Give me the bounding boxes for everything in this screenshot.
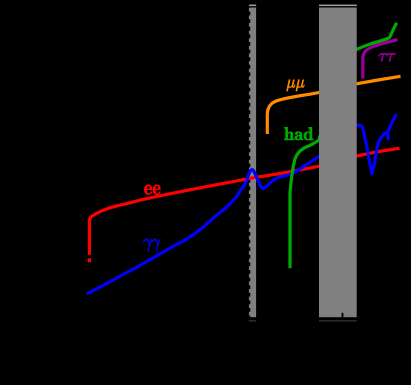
- top frame line (black, over bands): [0, 6, 411, 8]
- narrow gray band (Z threshold): [249, 5, 256, 322]
- band top sliver highlight (narrow band): [249, 5, 256, 7]
- label mu-mu: [287, 80, 305, 92]
- blue notch spur near right resonance: [386, 132, 390, 140]
- axis tick on wide band bottom: [342, 313, 344, 318]
- curve had (green): [290, 23, 397, 268]
- curve ee (red): [89, 148, 399, 262]
- bottom frame line (black, over bands): [0, 317, 411, 320]
- label tau-tau: [379, 53, 396, 61]
- red main curve: [89, 148, 399, 255]
- label gamma-gamma: [143, 239, 160, 252]
- curve tau-tau (purple): [363, 40, 398, 79]
- curve gamma-gamma (blue): [87, 114, 397, 294]
- wide gray band (WW/top threshold), drawn over curves: [319, 5, 357, 322]
- label ee: [144, 185, 160, 195]
- curve mu-mu (orange): [267, 76, 400, 134]
- band bottom sliver shade: [0, 320, 411, 322]
- label had: [284, 127, 313, 140]
- dashed vertical line: [248, 4, 250, 320]
- red dotted tip: [88, 258, 91, 262]
- band top sliver highlight (wide band): [319, 5, 357, 7]
